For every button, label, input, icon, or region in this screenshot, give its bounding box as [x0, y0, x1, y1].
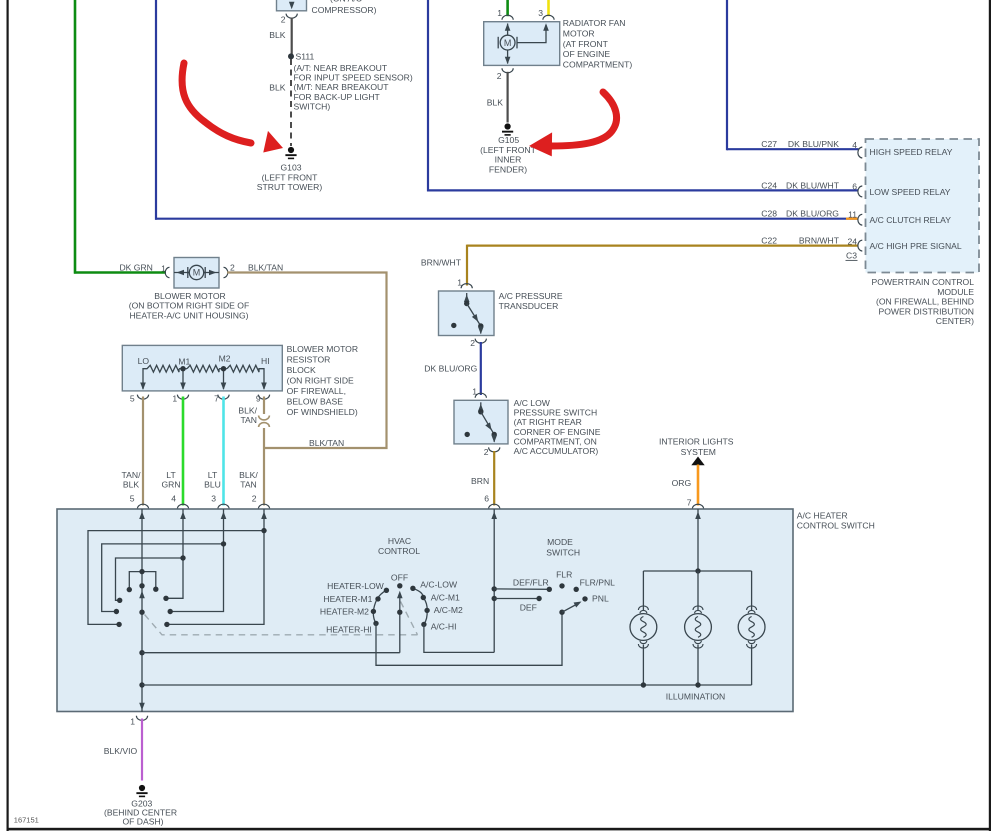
svg-text:INNER: INNER: [495, 155, 522, 165]
svg-text:LT: LT: [166, 470, 176, 480]
svg-text:BLK: BLK: [269, 30, 286, 40]
svg-text:OF FIREWALL,: OF FIREWALL,: [287, 386, 346, 396]
svg-text:A/C LOW: A/C LOW: [514, 398, 551, 408]
svg-text:C24: C24: [761, 180, 777, 190]
svg-text:DK GRN: DK GRN: [119, 262, 152, 272]
svg-text:BLOWER MOTOR: BLOWER MOTOR: [154, 291, 225, 301]
svg-text:(ON A/C: (ON A/C: [330, 0, 362, 4]
svg-text:CONTROL: CONTROL: [378, 546, 420, 556]
svg-text:BELOW BASE: BELOW BASE: [287, 396, 344, 406]
svg-text:(AT RIGHT REAR: (AT RIGHT REAR: [514, 417, 582, 427]
svg-text:TRANSDUCER: TRANSDUCER: [499, 301, 559, 311]
svg-text:HEATER-M1: HEATER-M1: [323, 594, 372, 604]
svg-text:(LEFT FRONT: (LEFT FRONT: [262, 172, 318, 182]
svg-text:(ON FIREWALL, BEHIND: (ON FIREWALL, BEHIND: [876, 297, 974, 307]
svg-text:LO: LO: [138, 356, 150, 366]
svg-text:A/C-M1: A/C-M1: [431, 592, 460, 602]
svg-text:3: 3: [211, 494, 216, 504]
svg-text:POWER DISTRIBUTION: POWER DISTRIBUTION: [879, 306, 975, 316]
svg-text:(AT FRONT: (AT FRONT: [563, 39, 609, 49]
svg-text:COMPARTMENT): COMPARTMENT): [563, 59, 633, 69]
svg-text:OF ENGINE: OF ENGINE: [563, 49, 611, 59]
svg-text:M2: M2: [219, 354, 231, 364]
svg-text:INTERIOR LIGHTS: INTERIOR LIGHTS: [659, 437, 734, 447]
svg-text:(M/T: NEAR BREAKOUT: (M/T: NEAR BREAKOUT: [294, 82, 390, 92]
svg-text:9: 9: [256, 394, 261, 404]
svg-text:2: 2: [281, 15, 286, 25]
svg-text:MODULE: MODULE: [937, 287, 974, 297]
svg-text:BRN/WHT: BRN/WHT: [421, 257, 462, 267]
svg-text:DK BLU/ORG: DK BLU/ORG: [424, 364, 477, 374]
svg-text:A/C-HI: A/C-HI: [431, 622, 457, 632]
svg-text:FOR BACK-UP LIGHT: FOR BACK-UP LIGHT: [294, 92, 381, 102]
svg-text:BRN: BRN: [471, 476, 489, 486]
svg-text:5: 5: [130, 394, 135, 404]
svg-text:6: 6: [852, 181, 857, 191]
svg-text:MOTOR: MOTOR: [563, 29, 595, 39]
svg-text:1: 1: [497, 8, 502, 18]
svg-text:GRN: GRN: [161, 480, 180, 490]
svg-text:CENTER): CENTER): [936, 316, 974, 326]
svg-text:SWITCH): SWITCH): [294, 102, 331, 112]
svg-text:SWITCH: SWITCH: [546, 548, 580, 558]
svg-text:M: M: [504, 38, 512, 48]
svg-text:A/C HEATER: A/C HEATER: [797, 511, 848, 521]
svg-text:LT: LT: [208, 470, 218, 480]
svg-text:C22: C22: [761, 236, 777, 246]
svg-text:BLK/TAN: BLK/TAN: [309, 438, 344, 448]
svg-text:HEATER-LOW: HEATER-LOW: [327, 581, 385, 591]
svg-text:A/C-M2: A/C-M2: [434, 605, 463, 615]
svg-text:POWERTRAIN CONTROL: POWERTRAIN CONTROL: [872, 277, 975, 287]
svg-text:FLR: FLR: [556, 570, 572, 580]
svg-text:167151: 167151: [14, 816, 39, 825]
svg-text:DK BLU/WHT: DK BLU/WHT: [786, 180, 840, 190]
svg-text:BLU: BLU: [204, 480, 221, 490]
svg-text:C28: C28: [761, 209, 777, 219]
svg-text:2: 2: [470, 338, 475, 348]
svg-text:BLK/: BLK/: [239, 470, 258, 480]
svg-text:HIGH SPEED RELAY: HIGH SPEED RELAY: [870, 147, 953, 157]
svg-text:BLK: BLK: [487, 97, 504, 107]
svg-text:BLOWER MOTOR: BLOWER MOTOR: [287, 344, 358, 354]
svg-text:5: 5: [130, 494, 135, 504]
svg-text:HI: HI: [261, 356, 270, 366]
svg-text:M: M: [193, 268, 201, 278]
svg-text:2: 2: [252, 494, 257, 504]
svg-text:7: 7: [687, 497, 692, 507]
svg-text:HVAC: HVAC: [388, 536, 411, 546]
svg-text:CONTROL SWITCH: CONTROL SWITCH: [797, 520, 875, 530]
svg-text:FENDER): FENDER): [489, 164, 527, 174]
svg-text:BLOCK: BLOCK: [287, 365, 316, 375]
svg-text:BLK: BLK: [123, 480, 140, 490]
svg-text:A/C ACCUMULATOR): A/C ACCUMULATOR): [514, 446, 599, 456]
svg-text:DEF: DEF: [520, 603, 537, 613]
svg-text:BLK/VIO: BLK/VIO: [104, 746, 138, 756]
svg-text:HEATER-HI: HEATER-HI: [326, 624, 372, 634]
svg-text:TAN: TAN: [240, 415, 257, 425]
svg-text:RADIATOR FAN: RADIATOR FAN: [563, 18, 626, 28]
svg-text:CORNER OF ENGINE: CORNER OF ENGINE: [514, 427, 601, 437]
svg-text:2: 2: [230, 262, 235, 272]
svg-text:4: 4: [852, 140, 857, 150]
svg-text:DEF/FLR: DEF/FLR: [513, 578, 549, 588]
svg-text:SYSTEM: SYSTEM: [681, 447, 716, 457]
svg-text:HEATER-A/C UNIT HOUSING): HEATER-A/C UNIT HOUSING): [129, 310, 248, 320]
svg-text:FOR INPUT SPEED SENSOR): FOR INPUT SPEED SENSOR): [294, 73, 413, 83]
svg-text:COMPRESSOR): COMPRESSOR): [312, 5, 377, 15]
svg-text:ORG: ORG: [672, 478, 692, 488]
svg-text:3: 3: [538, 8, 543, 18]
svg-text:ILLUMINATION: ILLUMINATION: [666, 692, 726, 702]
svg-text:PNL: PNL: [592, 594, 609, 604]
svg-text:BLK/TAN: BLK/TAN: [248, 262, 283, 272]
svg-text:OF DASH): OF DASH): [122, 817, 163, 827]
svg-text:4: 4: [171, 494, 176, 504]
svg-text:G105: G105: [498, 135, 519, 145]
svg-text:7: 7: [214, 394, 219, 404]
svg-text:A/C-LOW: A/C-LOW: [420, 579, 458, 589]
svg-text:OFF: OFF: [391, 572, 408, 582]
svg-text:HEATER-M2: HEATER-M2: [320, 606, 369, 616]
svg-text:MODE: MODE: [547, 537, 573, 547]
svg-text:PRESSURE SWITCH: PRESSURE SWITCH: [514, 407, 598, 417]
svg-text:BLK/: BLK/: [238, 406, 257, 416]
svg-text:TAN/: TAN/: [122, 470, 142, 480]
svg-text:BLK: BLK: [269, 82, 286, 92]
svg-text:FLR/PNL: FLR/PNL: [580, 578, 616, 588]
svg-text:6: 6: [484, 494, 489, 504]
svg-text:C3: C3: [846, 251, 857, 261]
svg-text:LOW SPEED RELAY: LOW SPEED RELAY: [870, 187, 951, 197]
svg-text:A/C HIGH PRE SIGNAL: A/C HIGH PRE SIGNAL: [870, 241, 962, 251]
svg-text:BRN/WHT: BRN/WHT: [799, 236, 840, 246]
svg-text:2: 2: [484, 447, 489, 457]
svg-text:1: 1: [130, 717, 135, 727]
svg-text:A/C CLUTCH RELAY: A/C CLUTCH RELAY: [870, 215, 952, 225]
svg-text:TAN: TAN: [240, 480, 257, 490]
svg-text:11: 11: [848, 210, 857, 220]
svg-text:(ON RIGHT SIDE: (ON RIGHT SIDE: [287, 375, 354, 385]
svg-text:RESISTOR: RESISTOR: [287, 354, 331, 364]
svg-text:A/C PRESSURE: A/C PRESSURE: [499, 291, 563, 301]
svg-text:(LEFT FRONT: (LEFT FRONT: [480, 145, 536, 155]
svg-text:1: 1: [172, 394, 177, 404]
svg-text:OF WINDSHIELD): OF WINDSHIELD): [287, 407, 358, 417]
svg-text:(A/T: NEAR BREAKOUT: (A/T: NEAR BREAKOUT: [294, 63, 388, 73]
svg-text:24: 24: [847, 237, 857, 247]
svg-text:COMPARTMENT, ON: COMPARTMENT, ON: [514, 436, 597, 446]
svg-text:2: 2: [497, 71, 502, 81]
svg-text:S111: S111: [296, 51, 315, 61]
svg-text:DK BLU/ORG: DK BLU/ORG: [786, 209, 839, 219]
svg-text:G103: G103: [280, 163, 301, 173]
svg-text:M1: M1: [178, 357, 190, 367]
svg-text:STRUT TOWER): STRUT TOWER): [257, 182, 323, 192]
svg-text:C27: C27: [761, 139, 777, 149]
svg-text:(ON BOTTOM RIGHT SIDE OF: (ON BOTTOM RIGHT SIDE OF: [129, 301, 249, 311]
svg-text:DK BLU/PNK: DK BLU/PNK: [788, 139, 839, 149]
